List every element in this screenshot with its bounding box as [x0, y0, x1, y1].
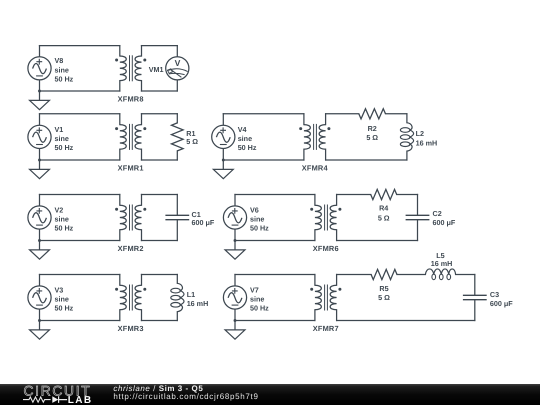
wire L1 bottom lead [176, 312, 178, 321]
svg-text:V2: V2 [55, 205, 64, 214]
wire V6 top lead [234, 195, 236, 206]
svg-text:V: V [175, 58, 181, 68]
wire top from V4 to transformer primary [223, 113, 304, 115]
svg-text:sine: sine [250, 215, 264, 224]
svg-text:XFMR1: XFMR1 [118, 164, 144, 173]
wire top from V6 to transformer primary [235, 194, 315, 196]
svg-text:V1: V1 [55, 125, 64, 134]
wire top from V8 to transformer primary [40, 45, 120, 47]
wire transformer XFMR1 primary top lead [119, 114, 121, 125]
wire transformer XFMR4 primary bottom lead [303, 149, 305, 160]
voltage source V3 [28, 286, 51, 309]
svg-text:L1: L1 [187, 290, 195, 299]
voltage source V1 [28, 125, 51, 148]
svg-text:V6: V6 [250, 205, 259, 214]
wire V2 top lead [39, 195, 41, 206]
transformer XFMR6 [315, 205, 321, 230]
node junction at V1 negative terminal [38, 159, 41, 162]
node junction at V3 negative terminal [38, 319, 41, 322]
ground below V7 [225, 321, 245, 340]
svg-text:VM1: VM1 [149, 65, 164, 74]
wire transformer XFMR8 primary top lead [119, 46, 121, 56]
transformer XFMR4 [304, 125, 310, 150]
svg-text:XFMR4: XFMR4 [302, 164, 329, 173]
svg-text:16 mH: 16 mH [416, 139, 438, 148]
wire voltmeter bottom lead [176, 80, 178, 91]
svg-text:5 Ω: 5 Ω [366, 133, 378, 142]
wire transformer XFMR7 primary bottom lead [314, 310, 316, 321]
transformer XFMR8 [120, 56, 126, 81]
svg-text:XFMR6: XFMR6 [313, 244, 339, 253]
svg-text:V3: V3 [55, 285, 64, 294]
svg-text:sine: sine [55, 215, 69, 224]
wire secondary bottom to C1 [142, 240, 178, 242]
resistor R4 [371, 189, 397, 199]
svg-text:16 mH: 16 mH [187, 299, 209, 308]
wire bottom from V8 to transformer primary [40, 90, 120, 92]
svg-text:V7: V7 [250, 285, 259, 294]
svg-text:LAB: LAB [68, 395, 93, 405]
wire transformer XFMR2 primary bottom lead [119, 230, 121, 241]
wire transformer XFMR8 secondary bottom lead [141, 81, 143, 91]
voltage source V4 [212, 125, 235, 148]
wire top from V3 to transformer primary [40, 274, 120, 276]
svg-text:600 μF: 600 μF [192, 218, 215, 227]
transformer XFMR2 [120, 205, 126, 230]
svg-text:5 Ω: 5 Ω [378, 293, 390, 302]
wire R1 bottom lead [176, 151, 178, 160]
node junction at V4 negative terminal [222, 159, 225, 162]
ground below V8 [30, 91, 50, 110]
wire transformer XFMR6 primary bottom lead [314, 230, 316, 241]
wire transformer XFMR2 secondary top lead [141, 195, 143, 206]
wire transformer XFMR4 primary top lead [303, 114, 305, 125]
ground below V1 [30, 160, 50, 179]
wire transformer XFMR3 primary top lead [119, 275, 121, 286]
inductor L5 [425, 269, 455, 275]
voltmeter VM1 [166, 57, 189, 80]
ground below V6 [225, 241, 245, 260]
svg-text:5 Ω: 5 Ω [378, 214, 390, 223]
svg-text:C3: C3 [490, 290, 499, 299]
wire transformer XFMR6 secondary top lead [336, 195, 338, 206]
wire secondary bottom to C3 [337, 320, 475, 322]
wire transformer XFMR8 secondary top lead [141, 46, 143, 56]
logo wire with resistor [23, 397, 51, 402]
svg-text:R5: R5 [379, 284, 388, 293]
svg-text:50 Hz: 50 Hz [55, 143, 74, 152]
svg-text:sine: sine [55, 134, 69, 143]
wire R4 to C2 [397, 194, 418, 196]
wire R2 to L2 [386, 113, 407, 115]
svg-text:50 Hz: 50 Hz [55, 75, 74, 84]
wire C2 bottom lead [417, 220, 419, 241]
svg-text:XFMR3: XFMR3 [118, 324, 144, 333]
svg-text:50 Hz: 50 Hz [55, 304, 74, 313]
wire secondary bottom to R1 [142, 159, 178, 161]
resistor R5 [371, 269, 397, 279]
wire transformer XFMR3 secondary top lead [141, 275, 143, 286]
wire bottom from V2 to transformer primary [40, 240, 120, 242]
wire C1 bottom lead [176, 220, 178, 241]
wire top from V2 to transformer primary [40, 194, 120, 196]
wire bottom from V4 to transformer primary [223, 159, 304, 161]
wire secondary bottom to L1 [142, 320, 178, 322]
wire V1 top lead [39, 114, 41, 126]
wire transformer XFMR4 secondary top lead [325, 114, 327, 125]
wire transformer XFMR1 primary bottom lead [119, 149, 121, 160]
svg-text:http://circuitlab.com/cdcjr68p: http://circuitlab.com/cdcjr68p5h7t9 [113, 392, 258, 401]
transformer XFMR1 [120, 125, 126, 150]
wire bottom from V6 to transformer primary [235, 240, 315, 242]
wire top from V1 to transformer primary [40, 113, 120, 115]
voltage source V6 [223, 206, 246, 229]
svg-text:L2: L2 [416, 129, 424, 138]
wire transformer XFMR2 primary top lead [119, 195, 121, 206]
wire secondary top to R5 [337, 274, 372, 276]
wire transformer XFMR6 secondary bottom lead [336, 230, 338, 241]
wire L5 to C3 corner [456, 274, 475, 276]
wire bottom from V3 to transformer primary [40, 320, 120, 322]
svg-text:50 Hz: 50 Hz [250, 224, 269, 233]
wire secondary top to R1 [142, 113, 178, 115]
wire secondary bottom to voltmeter [142, 90, 178, 92]
svg-text:V4: V4 [238, 125, 247, 134]
wire C3 bottom lead [474, 300, 476, 321]
wire L1 top lead [176, 275, 178, 284]
svg-text:R4: R4 [379, 204, 388, 213]
resistor R1 [172, 123, 184, 151]
wire R1 top lead [176, 114, 178, 123]
transformer XFMR3 [120, 285, 126, 310]
wire V1 bottom lead [39, 149, 41, 161]
wire transformer XFMR3 primary bottom lead [119, 310, 121, 321]
svg-text:XFMR7: XFMR7 [313, 324, 339, 333]
wire transformer XFMR2 secondary bottom lead [141, 230, 143, 241]
wire transformer XFMR7 secondary bottom lead [336, 310, 338, 321]
node junction at V7 negative terminal [234, 319, 237, 322]
voltage source V8 [28, 57, 51, 80]
svg-text:50 Hz: 50 Hz [55, 224, 74, 233]
wire secondary bottom to L2 [326, 159, 407, 161]
wire transformer XFMR7 secondary top lead [336, 275, 338, 286]
svg-text:600 μF: 600 μF [433, 218, 456, 227]
svg-text:C2: C2 [433, 209, 442, 218]
capacitor C1 [165, 215, 189, 219]
wire transformer XFMR4 secondary bottom lead [325, 149, 327, 160]
wire V7 bottom lead [234, 309, 236, 320]
wire V3 top lead [39, 275, 41, 286]
wire secondary top to C1 [142, 194, 178, 196]
svg-text:XFMR8: XFMR8 [118, 95, 144, 104]
wire V8 bottom lead [39, 80, 41, 91]
wire secondary top to R2 [326, 113, 359, 115]
svg-text:R2: R2 [368, 124, 377, 133]
svg-text:sine: sine [250, 295, 264, 304]
wire L2 bottom lead [406, 151, 408, 160]
node junction at V8 negative terminal [38, 90, 41, 93]
wire V3 bottom lead [39, 309, 41, 320]
wire V2 bottom lead [39, 229, 41, 240]
wire V4 top lead [222, 114, 224, 126]
ground below V3 [30, 321, 50, 340]
wire transformer XFMR3 secondary bottom lead [141, 310, 143, 321]
svg-text:50 Hz: 50 Hz [238, 143, 257, 152]
node junction at V2 negative terminal [38, 239, 41, 242]
svg-text:sine: sine [55, 65, 69, 74]
wire secondary top to R4 [337, 194, 371, 196]
svg-text:V8: V8 [55, 56, 64, 65]
wire C2 top lead [417, 195, 419, 216]
wire transformer XFMR1 secondary bottom lead [141, 149, 143, 160]
wire V4 bottom lead [222, 149, 224, 161]
transformer XFMR7 [315, 285, 321, 310]
voltage source V2 [28, 206, 51, 229]
wire R5 to L5 [397, 274, 425, 276]
wire transformer XFMR8 primary bottom lead [119, 81, 121, 91]
svg-text:XFMR2: XFMR2 [118, 244, 144, 253]
wire V8 top lead [39, 46, 41, 57]
wire transformer XFMR7 primary top lead [314, 275, 316, 286]
wire voltmeter top lead [176, 46, 178, 57]
wire V6 bottom lead [234, 229, 236, 240]
svg-text:sine: sine [55, 295, 69, 304]
svg-text:5 Ω: 5 Ω [186, 137, 198, 146]
wire transformer XFMR1 secondary top lead [141, 114, 143, 125]
inductor L2 [407, 123, 414, 151]
svg-text:sine: sine [238, 134, 252, 143]
node junction at V6 negative terminal [234, 239, 237, 242]
capacitor C2 [406, 215, 430, 219]
voltage source V7 [223, 286, 246, 309]
wire top from V7 to transformer primary [235, 274, 315, 276]
wire secondary top to L1 [142, 274, 178, 276]
wire L2 top lead [406, 114, 408, 123]
resistor R2 [359, 109, 386, 119]
svg-text:16 mH: 16 mH [431, 259, 453, 268]
ground below V4 [213, 160, 233, 179]
wire secondary top to voltmeter [142, 45, 178, 47]
ground below V2 [30, 241, 50, 260]
wire C3 top lead [474, 275, 476, 296]
wire bottom from V7 to transformer primary [235, 320, 315, 322]
wire V7 top lead [234, 275, 236, 286]
wire bottom from V1 to transformer primary [40, 159, 120, 161]
inductor L1 [177, 283, 184, 311]
wire C1 top lead [176, 195, 178, 216]
svg-text:600 μF: 600 μF [490, 299, 513, 308]
capacitor C3 [463, 295, 487, 299]
svg-text:50 Hz: 50 Hz [250, 304, 269, 313]
wire transformer XFMR6 primary top lead [314, 195, 316, 206]
logo diode [52, 396, 58, 403]
wire secondary bottom to C2 [337, 240, 418, 242]
